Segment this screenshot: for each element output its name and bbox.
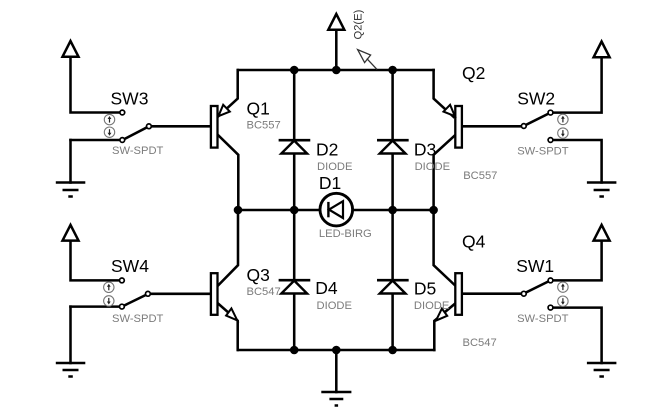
svg-text:Q1: Q1 xyxy=(247,98,270,118)
svg-text:DIODE: DIODE xyxy=(414,300,449,312)
svg-text:DIODE: DIODE xyxy=(415,161,450,173)
svg-text:DIODE: DIODE xyxy=(317,161,352,173)
svg-text:LED-BIRG: LED-BIRG xyxy=(319,228,372,240)
svg-text:SW-SPDT: SW-SPDT xyxy=(517,145,569,157)
svg-text:D2: D2 xyxy=(316,139,338,159)
svg-text:SW-SPDT: SW-SPDT xyxy=(517,313,569,325)
svg-text:D4: D4 xyxy=(315,278,338,298)
svg-text:BC547: BC547 xyxy=(463,337,497,349)
svg-text:BC547: BC547 xyxy=(247,286,281,298)
svg-text:BC557: BC557 xyxy=(463,170,497,182)
svg-text:D1: D1 xyxy=(319,173,341,193)
svg-text:SW1: SW1 xyxy=(516,256,554,276)
svg-text:Q2: Q2 xyxy=(462,63,485,83)
svg-text:SW4: SW4 xyxy=(111,256,149,276)
svg-text:SW-SPDT: SW-SPDT xyxy=(112,313,164,325)
svg-text:DIODE: DIODE xyxy=(317,300,352,312)
svg-text:Q3: Q3 xyxy=(247,265,270,285)
svg-text:BC557: BC557 xyxy=(247,119,281,131)
svg-text:D3: D3 xyxy=(414,139,436,159)
svg-text:Q4: Q4 xyxy=(462,232,486,252)
svg-text:SW3: SW3 xyxy=(111,89,149,109)
svg-text:SW-SPDT: SW-SPDT xyxy=(112,145,164,157)
svg-text:D5: D5 xyxy=(414,279,436,299)
svg-text:Q2(E): Q2(E) xyxy=(353,9,365,39)
svg-text:SW2: SW2 xyxy=(517,89,555,109)
